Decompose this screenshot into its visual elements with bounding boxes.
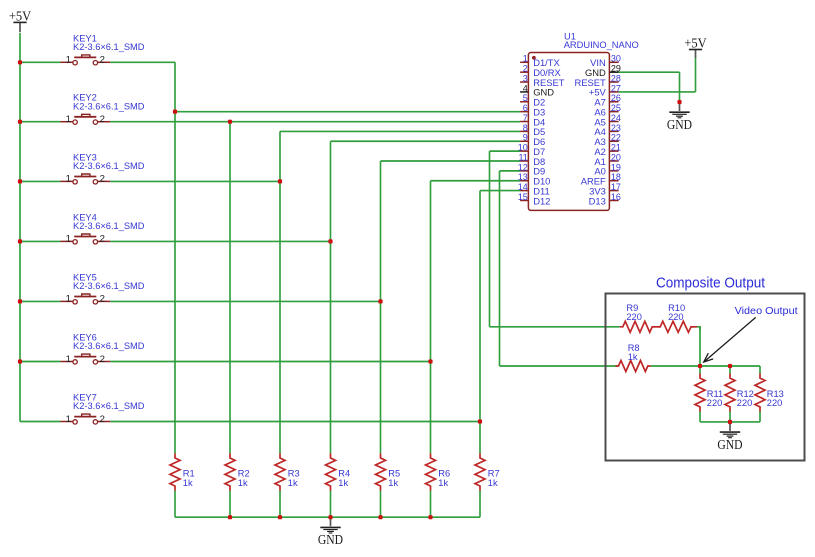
svg-text:2: 2	[100, 354, 105, 365]
svg-text:GND: GND	[717, 438, 742, 453]
svg-text:8: 8	[523, 123, 528, 133]
svg-text:1k: 1k	[183, 478, 193, 488]
svg-text:K2-3.6×6.1_SMD: K2-3.6×6.1_SMD	[73, 161, 145, 171]
svg-text:K2-3.6×6.1_SMD: K2-3.6×6.1_SMD	[73, 221, 145, 231]
svg-text:19: 19	[611, 162, 621, 172]
svg-text:18: 18	[611, 172, 621, 182]
svg-text:10: 10	[518, 143, 528, 153]
svg-text:12: 12	[518, 162, 528, 172]
svg-text:4: 4	[523, 83, 528, 93]
svg-text:2: 2	[100, 114, 105, 125]
svg-text:1: 1	[66, 114, 71, 125]
svg-text:GND: GND	[667, 118, 692, 133]
svg-text:1: 1	[66, 354, 71, 365]
svg-text:3: 3	[523, 73, 528, 83]
svg-text:16: 16	[611, 192, 621, 202]
svg-text:220: 220	[707, 398, 723, 408]
svg-text:1k: 1k	[488, 478, 498, 488]
svg-text:Composite Output: Composite Output	[656, 274, 766, 291]
svg-text:1: 1	[66, 234, 71, 245]
svg-text:21: 21	[611, 143, 621, 153]
svg-text:1: 1	[66, 414, 71, 425]
svg-text:220: 220	[767, 398, 783, 408]
svg-text:30: 30	[611, 54, 621, 64]
svg-text:1k: 1k	[438, 478, 448, 488]
svg-text:22: 22	[611, 133, 621, 143]
svg-text:17: 17	[611, 182, 621, 192]
svg-text:+5V: +5V	[684, 35, 707, 50]
svg-text:26: 26	[611, 93, 621, 103]
svg-text:1: 1	[66, 174, 71, 185]
svg-text:220: 220	[668, 312, 684, 322]
svg-text:15: 15	[518, 192, 528, 202]
svg-text:D12: D12	[533, 195, 550, 206]
svg-text:1: 1	[66, 294, 71, 305]
svg-text:ARDUINO_NANO: ARDUINO_NANO	[564, 40, 639, 50]
svg-text:220: 220	[737, 398, 753, 408]
svg-text:K2-3.6×6.1_SMD: K2-3.6×6.1_SMD	[73, 281, 145, 291]
svg-text:Video Output: Video Output	[735, 306, 798, 317]
svg-text:2: 2	[100, 234, 105, 245]
svg-text:K2-3.6×6.1_SMD: K2-3.6×6.1_SMD	[73, 42, 145, 52]
svg-text:24: 24	[611, 113, 621, 123]
svg-text:K2-3.6×6.1_SMD: K2-3.6×6.1_SMD	[73, 101, 145, 111]
svg-text:5: 5	[523, 93, 528, 103]
svg-text:7: 7	[523, 113, 528, 123]
svg-text:1: 1	[66, 55, 71, 66]
svg-text:2: 2	[100, 55, 105, 66]
svg-text:23: 23	[611, 123, 621, 133]
svg-text:+5V: +5V	[9, 8, 32, 23]
svg-text:6: 6	[523, 103, 528, 113]
svg-text:K2-3.6×6.1_SMD: K2-3.6×6.1_SMD	[73, 341, 145, 351]
svg-text:2: 2	[100, 294, 105, 305]
svg-text:1k: 1k	[288, 478, 298, 488]
svg-text:9: 9	[523, 133, 528, 143]
svg-text:220: 220	[626, 312, 642, 322]
svg-text:1: 1	[523, 54, 528, 64]
svg-text:13: 13	[518, 172, 528, 182]
svg-text:1k: 1k	[238, 478, 248, 488]
svg-text:2: 2	[100, 174, 105, 185]
svg-text:1k: 1k	[388, 478, 398, 488]
svg-text:27: 27	[611, 83, 621, 93]
svg-text:2: 2	[523, 64, 528, 74]
svg-text:K2-3.6×6.1_SMD: K2-3.6×6.1_SMD	[73, 401, 145, 411]
svg-text:2: 2	[100, 414, 105, 425]
svg-text:20: 20	[611, 152, 621, 162]
svg-text:1k: 1k	[338, 478, 348, 488]
svg-text:29: 29	[611, 64, 621, 74]
svg-text:11: 11	[518, 152, 527, 162]
svg-text:GND: GND	[318, 533, 343, 548]
svg-text:14: 14	[518, 182, 528, 192]
svg-text:D13: D13	[589, 195, 606, 206]
svg-text:25: 25	[611, 103, 621, 113]
svg-text:28: 28	[611, 73, 621, 83]
svg-text:1k: 1k	[628, 352, 638, 362]
